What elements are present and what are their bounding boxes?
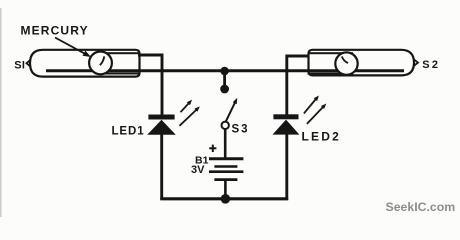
wire bottom rail (160, 197, 288, 200)
svg-text:LED1: LED1 (112, 126, 145, 138)
battery B1 positive long plate 1 (209, 157, 243, 160)
mercury switch S2 mercury ball (335, 52, 357, 74)
LED2 triangle (273, 120, 300, 135)
wire S3 pivot from bus node (223, 71, 226, 89)
svg-text:SI: SI (14, 59, 25, 71)
battery B1 negative short plate 2 (214, 178, 237, 181)
svg-text:S2: S2 (422, 59, 440, 71)
mercury switch S1 contact tick inside ball (100, 56, 105, 65)
LED1 cathode bar (148, 115, 174, 120)
LED1 light arrow upper shaft (181, 103, 190, 112)
LED2 light arrow upper shaft (304, 100, 316, 114)
mercury switch S1 glass envelope (30, 50, 140, 77)
label MERCURY leader arrowhead (83, 51, 92, 57)
mercury switch S1 sleeve electrode (97, 53, 140, 73)
svg-text:3V: 3V (191, 164, 205, 176)
LED2 cathode bar (273, 114, 298, 119)
mercury switch S2 contact tick inside ball (342, 56, 348, 63)
node junction dot at bus center (220, 67, 229, 76)
svg-text:S3: S3 (232, 124, 250, 136)
wire main horizontal bus from S1 electrode to S2 electrode (46, 69, 404, 72)
battery plus sign (209, 147, 216, 149)
LED1 light arrow lower head (194, 106, 200, 111)
mercury switch S1 mercury ball (89, 52, 112, 75)
svg-text:SeekIC.com: SeekIC.com (386, 200, 456, 214)
mercury switch S2 glass tip (413, 59, 418, 67)
LED1 light arrow upper head (187, 100, 192, 106)
mercury switch S2 glass envelope (309, 50, 415, 76)
wire S1 top electrode stub to LED1 branch (138, 55, 162, 115)
switch S3 arm (225, 103, 235, 123)
wire S3 lower terminal to battery (224, 129, 227, 158)
mercury switch S1 glass tip (27, 59, 32, 67)
LED2 light arrow lower shaft (307, 107, 323, 124)
switch S3 arm arrowhead (233, 98, 238, 104)
svg-text:LED2: LED2 (302, 130, 341, 144)
wire LED2 anode down to bottom rail (285, 133, 288, 200)
mercury switch S2 sleeve electrode (309, 53, 353, 73)
label MERCURY leader line (55, 38, 86, 55)
wire S2 top electrode stub to LED2 branch (287, 56, 310, 115)
svg-text:MERCURY: MERCURY (21, 24, 89, 38)
switch S3 pivot dot (220, 85, 229, 94)
switch S3 lower contact open circle (222, 122, 229, 129)
wire battery negative to bottom rail (224, 181, 227, 199)
scan edge smudge (0, 8, 2, 217)
LED1 triangle (147, 120, 176, 135)
wire LED1 anode down to bottom rail (160, 133, 163, 200)
battery B1 positive long plate 2 (209, 170, 243, 173)
LED1 light arrow lower shaft (180, 110, 197, 126)
battery B1 negative short plate 1 (214, 165, 237, 168)
node junction dot on bottom rail (221, 194, 231, 204)
LED2 light arrow upper head (314, 96, 319, 102)
LED2 light arrow lower head (321, 104, 326, 110)
